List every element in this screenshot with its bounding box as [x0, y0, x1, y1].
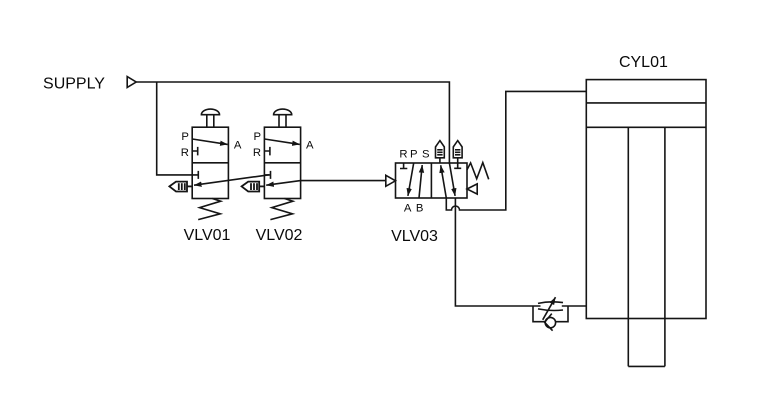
svg-text:A: A [234, 140, 242, 152]
svg-text:R: R [399, 149, 407, 161]
svg-text:VLV02: VLV02 [256, 227, 303, 244]
svg-text:P: P [410, 149, 418, 161]
svg-text:A: A [306, 140, 314, 152]
svg-text:B: B [416, 203, 424, 215]
svg-text:P: P [254, 131, 262, 143]
svg-text:SUPPLY: SUPPLY [43, 75, 105, 92]
svg-text:CYL01: CYL01 [619, 54, 668, 71]
svg-text:R: R [181, 147, 189, 159]
svg-text:P: P [181, 131, 189, 143]
svg-text:VLV03: VLV03 [391, 228, 438, 245]
svg-text:A: A [404, 203, 412, 215]
svg-text:S: S [422, 149, 430, 161]
svg-text:R: R [253, 147, 261, 159]
svg-text:VLV01: VLV01 [184, 227, 231, 244]
